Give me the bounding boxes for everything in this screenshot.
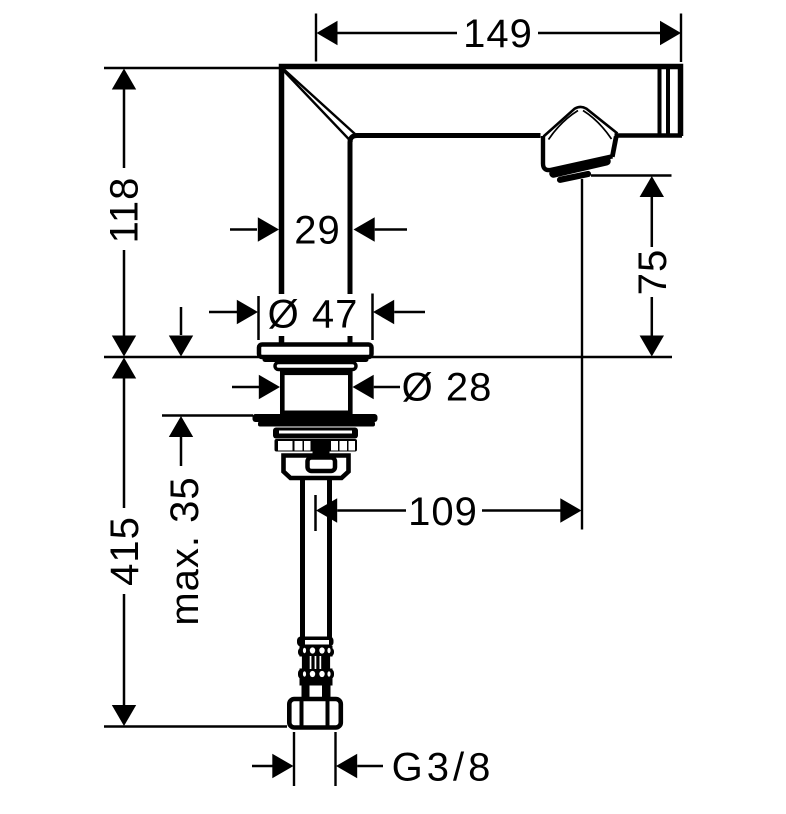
spout housing left wall and slanted bottom (543, 136, 613, 170)
svg-text:29: 29 (294, 209, 341, 253)
chamfer diagonal B (284, 71, 353, 143)
dimension 415: bottom tick line (104, 725, 287, 728)
dimension d28: right arrow (353, 375, 374, 399)
dimension 109: right segment and arrow (482, 509, 561, 512)
dimension 109: axis tick (314, 495, 317, 531)
cap groove vertical line 1 (658, 69, 662, 135)
knurl white slot 3 (304, 441, 311, 451)
dimension 149: left arrow (317, 21, 338, 45)
knurl white slot 2 (295, 441, 303, 451)
dimension max35: tick line (162, 414, 253, 417)
spout pyramid inner right line (583, 111, 612, 140)
dimension 415: down arrow (112, 705, 136, 726)
svg-text:415: 415 (103, 516, 147, 586)
spout housing right wall (612, 137, 616, 157)
flange plate (Ø47) (259, 345, 372, 358)
dimension G3/8: left arrow (252, 765, 273, 768)
locknut upper band white stripe (279, 431, 352, 434)
dimension d47: right extension tick (371, 294, 374, 341)
aerator slab 1 (554, 161, 607, 173)
svg-text:Ø 47: Ø 47 (268, 293, 359, 337)
dimension 75: dim line (651, 196, 654, 336)
svg-text:118: 118 (103, 177, 147, 244)
dimension 109: left arrow (316, 498, 337, 522)
dimension 415: dim line (123, 377, 126, 707)
svg-text:75: 75 (631, 249, 675, 296)
svg-text:G3/8: G3/8 (392, 746, 495, 790)
knurl band (275, 439, 358, 452)
dimension d47: left arrow (209, 311, 237, 314)
arm bottom edge right segment (615, 133, 683, 138)
dimension 149: line segments (336, 32, 660, 35)
knurl white slot 4 (331, 441, 338, 451)
dimension 118: top extension line (104, 67, 281, 69)
supply pipe left wall (300, 480, 305, 639)
riser right edge and arm bottom edge left segment (350, 136, 541, 345)
corrugation waist white margins (300, 657, 302, 669)
cap groove vertical line 2 (666, 69, 670, 135)
dimension 149: right arrow (660, 21, 681, 45)
dimension G3/8: right arrow (336, 754, 357, 778)
knurl white slot 5 (340, 441, 348, 451)
dimension 149: left extension line (axis) (315, 14, 317, 62)
svg-text:Ø 28: Ø 28 (402, 366, 493, 410)
dimension 149: right extension line (680, 14, 682, 63)
dimension 118: down arrow (112, 336, 136, 357)
dimension d28: left arrow (232, 386, 259, 389)
dimension G3/8: left extension line (293, 732, 295, 786)
spout pyramid inner left line (549, 111, 579, 140)
knurl white slot 6 (349, 441, 356, 451)
dimension 415: up arrow (112, 358, 136, 379)
svg-text:149: 149 (463, 12, 533, 56)
corrugation white ovals row 1 (310, 647, 315, 653)
dimension 75: down arrow (640, 336, 664, 357)
supply pipe right wall (327, 480, 332, 639)
dimension G3/8: right extension line (334, 732, 336, 786)
center stem bar (313, 439, 330, 460)
spout pyramid outer silhouette (544, 107, 618, 137)
dimension 29: left arrow (230, 228, 257, 231)
dimension d47: right arrow (373, 300, 394, 324)
svg-text:max. 35: max. 35 (163, 476, 207, 625)
locknut upper band (273, 428, 358, 439)
dimension 118: dim line (123, 87, 126, 337)
dimension 75: top tick line (591, 174, 672, 176)
hose corrugation body (300, 646, 333, 686)
dimension max35: down arrow (180, 307, 183, 335)
chamfer diagonal A (284, 70, 355, 135)
dimension 118: up arrow (112, 69, 136, 90)
white gap for d47 label (268, 294, 358, 336)
dimension max35: up arrow (169, 416, 193, 437)
valve box (284, 456, 349, 479)
connector neck right bar (322, 686, 331, 698)
flange bottom lip (263, 357, 369, 363)
thick band 2 (258, 422, 375, 427)
spout extension line (581, 179, 583, 530)
collar under flange (275, 363, 356, 370)
body Ø28 (282, 373, 350, 413)
knurl white slot 1 (278, 441, 293, 451)
dimension 29: right arrow (354, 217, 375, 241)
dimension 75: up arrow (640, 176, 664, 197)
corrugation white stripes (310, 656, 312, 669)
svg-text:109: 109 (408, 490, 478, 534)
hose nut (289, 699, 341, 728)
corrugation white ovals row 2 (310, 671, 315, 677)
clip inside valve box (308, 458, 336, 472)
hose connector top collar (297, 637, 334, 647)
mounting plane line (104, 356, 672, 359)
aerator slab 2 (560, 174, 588, 180)
nut hex flat line right (326, 701, 330, 728)
connector neck left bar (302, 686, 310, 698)
faucet body outline: left edge, top edge, right cap edge (282, 67, 681, 346)
dimension d47: left extension tick (257, 296, 260, 340)
nut hex flat line left (300, 701, 304, 728)
thick band 1 (253, 414, 378, 422)
